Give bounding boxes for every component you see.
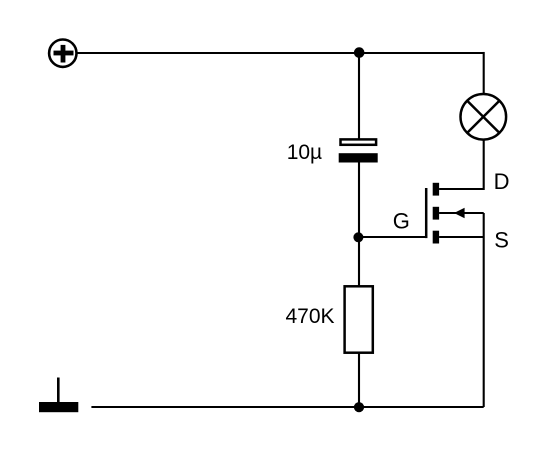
wire resistor to bottom rail	[358, 353, 360, 407]
wire capacitor to gate node	[358, 162, 360, 239]
svg-text:10µ: 10µ	[287, 141, 322, 164]
capacitor C1 top plate	[341, 139, 377, 144]
node top junction	[354, 47, 365, 58]
wire top rail to lamp	[483, 52, 485, 94]
wire gate	[358, 236, 427, 238]
wire capacitor branch from top rail	[358, 53, 360, 139]
ground symbol	[39, 378, 78, 413]
resistor R1	[345, 286, 373, 352]
transistor Q1 MOSFET	[426, 183, 484, 244]
wire bottom rail	[91, 406, 483, 408]
svg-text:S: S	[494, 228, 509, 253]
svg-text:D: D	[494, 169, 510, 194]
lamp LP1	[461, 94, 507, 140]
wire top rail	[78, 52, 484, 54]
node bottom junction	[354, 402, 364, 412]
svg-text:G: G	[393, 209, 410, 234]
wire gate node to resistor	[358, 237, 360, 286]
wire lamp to drain corner	[439, 140, 484, 189]
wire source to bottom rail	[483, 213, 485, 407]
node gate junction	[353, 232, 363, 242]
battery positive terminal +	[49, 40, 76, 67]
capacitor C1 bottom plate	[339, 153, 378, 162]
svg-text:470K: 470K	[286, 305, 335, 328]
